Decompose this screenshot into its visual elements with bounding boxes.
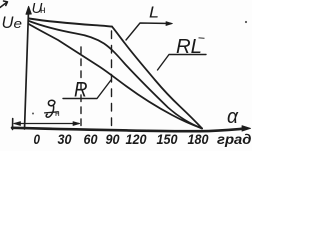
svg-text:120: 120 bbox=[126, 131, 147, 147]
svg-text:град: град bbox=[217, 132, 252, 147]
curve L bbox=[112, 27, 202, 129]
R label underline and leader bbox=[63, 80, 111, 99]
svg-text:н: н bbox=[40, 5, 46, 16]
L label leader and arrow bbox=[126, 23, 171, 40]
curve R bbox=[29, 24, 202, 128]
svg-text:0: 0 bbox=[34, 131, 41, 147]
svg-text:30: 30 bbox=[58, 131, 72, 147]
svg-text:RL: RL bbox=[176, 36, 202, 58]
dashed vertical line at 90deg bbox=[111, 31, 113, 129]
svg-text:L: L bbox=[149, 5, 159, 22]
scan speckles bbox=[245, 21, 247, 23]
RL label underline and leader bbox=[158, 55, 207, 71]
svg-text:U: U bbox=[2, 14, 14, 32]
dashed vertical line at 60deg bbox=[80, 47, 82, 129]
svg-text:90: 90 bbox=[106, 131, 120, 147]
svg-text:α: α bbox=[227, 106, 239, 128]
curve RL bbox=[29, 21, 202, 128]
phi dimension double arrow bbox=[15, 123, 80, 125]
svg-text:н: н bbox=[55, 108, 60, 118]
y-axis bbox=[25, 8, 29, 129]
x-axis arrowhead bbox=[242, 126, 251, 132]
top-left corner cut arrow bbox=[0, 1, 8, 8]
svg-text:150: 150 bbox=[157, 131, 178, 147]
svg-text:180: 180 bbox=[188, 131, 209, 147]
svg-text:е: е bbox=[14, 16, 23, 31]
flat top segment (Uc level start of curves) bbox=[29, 19, 112, 27]
y-axis arrowhead bbox=[26, 6, 31, 14]
svg-text:R: R bbox=[74, 79, 88, 102]
origin bar at axis start bbox=[12, 119, 14, 130]
x-axis bbox=[12, 128, 245, 131]
svg-text:60: 60 bbox=[84, 131, 98, 147]
label phi_H (script phi glyph) bbox=[45, 100, 59, 117]
speckle near phi bbox=[32, 113, 34, 115]
